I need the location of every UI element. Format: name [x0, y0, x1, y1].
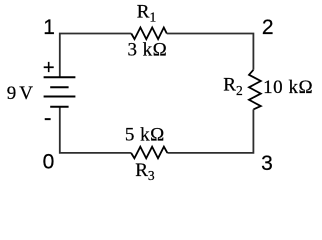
resistor R1 (3 kOhm, horizontal zigzag, top wire): [131, 28, 167, 40]
svg-text:3: 3: [261, 152, 273, 175]
resistor R2 (10 kOhm, vertical zigzag, right wire): [249, 70, 261, 110]
svg-text:5 kΩ: 5 kΩ: [125, 125, 165, 146]
wire top-right run from R1 to node 2 corner, down to R2: [167, 34, 254, 70]
svg-text:3 kΩ: 3 kΩ: [128, 39, 168, 60]
battery plate long top (+): [44, 76, 76, 78]
svg-text:R1: R1: [137, 2, 156, 25]
svg-text:-: -: [44, 104, 52, 130]
svg-text:2: 2: [262, 16, 274, 39]
battery plate long: [44, 96, 76, 98]
resistor R3 (5 kOhm, horizontal zigzag, bottom wire): [131, 147, 167, 159]
svg-text:0: 0: [43, 151, 55, 174]
svg-text:R2: R2: [223, 75, 242, 99]
wire left side: node 1 corner down to battery + terminal, and top-left run to R1: [60, 34, 132, 78]
battery plate short bottom (-): [50, 106, 68, 108]
battery 9 V (two-cell symbol): [44, 77, 76, 107]
svg-text:10 kΩ: 10 kΩ: [263, 77, 313, 98]
svg-text:+: +: [43, 57, 55, 79]
svg-text:1: 1: [43, 16, 55, 39]
svg-text:R3: R3: [135, 160, 155, 183]
svg-text:V: V: [19, 83, 33, 104]
wire bottom-left run from R3 to node 0 corner, up to battery - terminal: [60, 107, 131, 153]
battery plate short: [50, 86, 68, 88]
svg-text:9: 9: [7, 83, 16, 104]
wire right side below R2 to node 3 corner and bottom-right run to R3: [167, 109, 253, 152]
